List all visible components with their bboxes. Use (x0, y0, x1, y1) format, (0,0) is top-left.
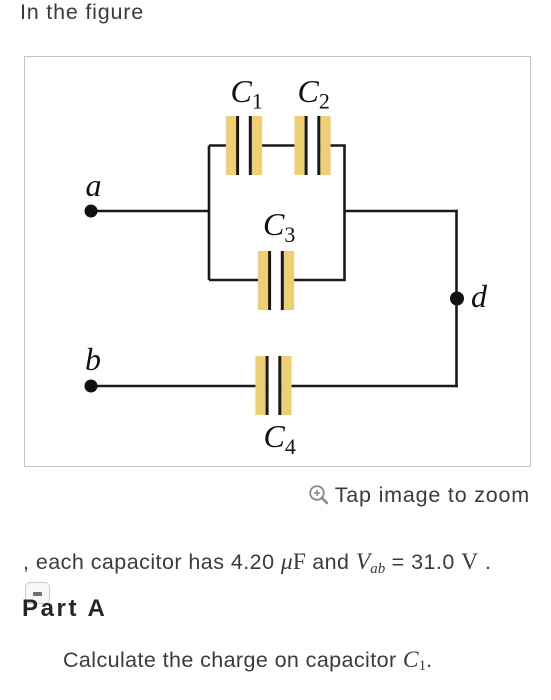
wire bottom branch segment left (209, 279, 269, 282)
intro text (20, 0, 144, 25)
wire right vertical through d (455, 210, 458, 388)
figure frame (24, 56, 531, 467)
svg-text:a: a (86, 167, 102, 203)
wire rectangle left side (208, 146, 211, 281)
question line (63, 647, 432, 674)
Part A heading (22, 595, 107, 623)
wire b segment left (91, 385, 267, 388)
svg-text:C1: C1 (231, 73, 263, 114)
svg-text:b: b (85, 341, 101, 377)
wire bottom branch segment right (284, 279, 346, 282)
wire network to d (345, 210, 458, 213)
node d (450, 292, 464, 306)
svg-text:C2: C2 (298, 73, 330, 114)
wire top branch segment right (320, 144, 346, 147)
statement line (23, 549, 491, 576)
node a (85, 205, 98, 218)
tap to zoom row (0, 483, 530, 508)
wire top branch segment left (209, 144, 237, 147)
svg-text:d: d (471, 278, 488, 314)
capacitor C3 (258, 251, 294, 310)
wire top branch segment middle (252, 144, 306, 147)
wire b segment right (281, 385, 458, 388)
collapse toggle (25, 582, 50, 604)
node b (85, 380, 98, 393)
wire rectangle right side (343, 146, 346, 281)
capacitor C4 (255, 356, 291, 415)
capacitor C2 (294, 116, 330, 175)
wire a to network (91, 210, 209, 213)
svg-text:C4: C4 (264, 418, 296, 459)
svg-text:C3: C3 (263, 206, 295, 247)
capacitor C1 (226, 116, 262, 175)
